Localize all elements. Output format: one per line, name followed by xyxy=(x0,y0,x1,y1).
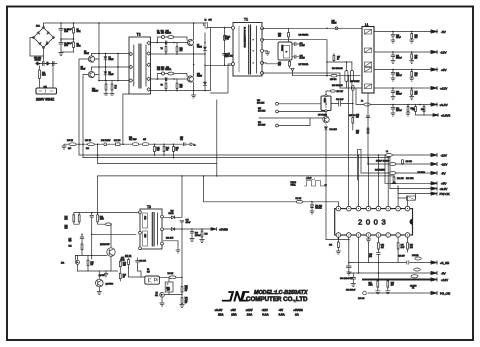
svg-text:4R7: 4R7 xyxy=(143,139,146,141)
svg-text:5D-9: 5D-9 xyxy=(42,75,46,77)
svg-text:R57 683: R57 683 xyxy=(349,115,355,117)
svg-text:-12V: -12V xyxy=(440,51,447,55)
wire L1 aux down xyxy=(367,93,369,164)
arrow -5V a xyxy=(431,163,437,166)
svg-text:817: 817 xyxy=(147,271,150,273)
svg-text:COMPUTER CO.,LTD: COMPUTER CO.,LTD xyxy=(246,296,308,303)
clamp box U8 xyxy=(278,42,292,60)
svg-text:C5027: C5027 xyxy=(84,53,89,55)
svg-text:Q6 8550S: Q6 8550S xyxy=(106,284,114,286)
svg-text:4R7: 4R7 xyxy=(278,35,281,37)
wire mid row xyxy=(64,143,190,145)
capacitor C42 + zener ZD1 xyxy=(310,202,314,214)
svg-text:PS_ON: PS_ON xyxy=(440,291,450,295)
svg-text:R36: R36 xyxy=(68,148,71,150)
svg-text:C42 471: C42 471 xyxy=(315,208,321,210)
svg-text:100: 100 xyxy=(356,133,359,135)
terminal xyxy=(291,69,294,72)
capacitor C10 xyxy=(165,41,167,44)
resistor R80 xyxy=(87,260,89,266)
svg-text:101B: 101B xyxy=(144,234,146,238)
capacitor C5 xyxy=(223,40,227,65)
resistor R43 xyxy=(173,144,175,146)
sense wire left xyxy=(278,103,321,105)
resistor R26 xyxy=(411,32,413,34)
node dots top rail xyxy=(61,22,194,24)
svg-text:-12V: -12V xyxy=(262,308,268,312)
svg-text:2003: 2003 xyxy=(358,218,389,227)
arrow -5V xyxy=(431,172,437,175)
svg-text:2R2 4K7 FR107A: 2R2 4K7 FR107A xyxy=(157,31,172,34)
svg-text:4R7 1/2W: 4R7 1/2W xyxy=(129,139,137,141)
wire Q collectors xyxy=(92,23,100,71)
svg-text:+5VSB: +5VSB xyxy=(293,308,303,312)
svg-text:R37 1M: R37 1M xyxy=(85,140,92,142)
svg-text:C5027: C5027 xyxy=(81,69,86,71)
resistor R63 xyxy=(407,237,409,243)
svg-text:431: 431 xyxy=(155,295,158,297)
resistor R57 xyxy=(352,104,354,118)
diode D2 xyxy=(105,54,107,57)
capacitor C39 xyxy=(351,273,356,287)
svg-text:-5V: -5V xyxy=(441,272,446,276)
capacitor C2 xyxy=(59,39,63,49)
svg-text:C5: C5 xyxy=(176,150,178,152)
svg-text:472: 472 xyxy=(180,139,183,141)
wire row 255 xyxy=(76,255,107,260)
collector bus xyxy=(193,23,195,95)
svg-text:1000uF R34 120: 1000uF R34 120 xyxy=(376,161,389,163)
wire -12V row xyxy=(392,154,431,156)
svg-text:-5V: -5V xyxy=(441,172,446,176)
svg-text:0.5A: 0.5A xyxy=(279,313,286,317)
svg-text:R67 100K: R67 100K xyxy=(406,178,414,180)
wire mid tie xyxy=(61,34,74,43)
resistor R31 xyxy=(415,105,417,107)
row -5V b xyxy=(349,272,431,274)
svg-text:1000uF: 1000uF xyxy=(396,93,402,95)
JNC logo xyxy=(222,291,250,301)
row +5V thick xyxy=(363,279,431,281)
wire row 271 xyxy=(78,270,118,272)
resistor R18 xyxy=(224,28,226,36)
wire cell B top xyxy=(157,74,187,80)
svg-text:-12V: -12V xyxy=(441,154,447,158)
svg-text:270: 270 xyxy=(415,93,418,95)
svg-text:1n: 1n xyxy=(337,59,339,61)
wire feedback bus xyxy=(259,118,323,126)
node B+ xyxy=(190,143,192,145)
wire sec top xyxy=(262,27,362,29)
resistor R30 xyxy=(407,105,409,107)
svg-text:D16 FR107A: D16 FR107A xyxy=(299,33,310,36)
svg-text:C30 47uF: C30 47uF xyxy=(336,99,343,101)
svg-text:100 OHM: 100 OHM xyxy=(258,110,266,112)
svg-text:+3.3V: +3.3V xyxy=(440,103,449,107)
box R73 xyxy=(407,196,416,200)
svg-text:D17 FR107A: D17 FR107A xyxy=(299,63,310,66)
ground row left xyxy=(62,144,66,149)
sense terminal A xyxy=(276,102,279,105)
wire right bus xyxy=(205,28,211,91)
svg-text:100: 100 xyxy=(415,75,418,77)
svg-text:EI-33ASANKEN750B: EI-33ASANKEN750B xyxy=(243,27,246,48)
svg-text:Z1: Z1 xyxy=(205,19,207,21)
svg-text:+3.3V: +3.3V xyxy=(215,308,223,312)
row -5V xyxy=(374,31,431,33)
svg-text:D27 5822: D27 5822 xyxy=(418,172,425,174)
capacitor C11 xyxy=(165,77,167,80)
resistor R28 xyxy=(411,70,413,72)
standby primary wires xyxy=(79,176,138,213)
svg-text:4/7W: 4/7W xyxy=(100,219,104,221)
svg-text:470uF: 470uF xyxy=(396,37,401,39)
svg-text:D14 4148: D14 4148 xyxy=(330,129,337,131)
svg-text:100 OHM: 100 OHM xyxy=(258,124,266,126)
wire AC top rail xyxy=(44,23,206,27)
wire right AC leg xyxy=(52,66,54,88)
svg-text:C26 103: C26 103 xyxy=(406,161,412,163)
wire cell A top xyxy=(157,37,187,43)
svg-text:FR107: FR107 xyxy=(109,59,114,61)
capacitor C30 xyxy=(331,101,353,106)
wire T2 bottom to rails xyxy=(123,94,129,144)
svg-text:2200uF: 2200uF xyxy=(396,110,402,112)
svg-text:+5V: +5V xyxy=(231,308,236,312)
svg-text:472 472: 472 472 xyxy=(35,60,41,62)
svg-text:L5 R100: L5 R100 xyxy=(412,255,418,257)
svg-text:D18 SBL3040: D18 SBL3040 xyxy=(332,68,343,70)
resistor R50 xyxy=(288,28,290,32)
svg-text:4K7: 4K7 xyxy=(180,50,183,52)
resistor R87 xyxy=(181,287,183,293)
svg-text:FR302: FR302 xyxy=(169,213,174,215)
ground center tap xyxy=(264,51,270,55)
capacitor C20 xyxy=(391,32,395,44)
capacitor C23 xyxy=(391,88,395,100)
resistor R51 xyxy=(262,62,278,65)
svg-text:FR107: FR107 xyxy=(197,75,202,77)
ground bus xyxy=(191,95,195,98)
svg-text:47uF: 47uF xyxy=(401,247,405,249)
diode D9 xyxy=(204,33,206,47)
capacitor C15 xyxy=(292,55,299,58)
resistor R32 xyxy=(423,105,425,107)
svg-text:FR302W: FR302W xyxy=(281,45,283,52)
svg-text:100 OHM: 100 OHM xyxy=(257,103,265,105)
diode D8 xyxy=(162,36,165,39)
diode D24 xyxy=(351,85,354,90)
wire fb xyxy=(293,62,361,208)
svg-text:+12V: +12V xyxy=(246,308,253,312)
svg-text:R66 10K: R66 10K xyxy=(397,178,404,180)
resistor R84 xyxy=(169,276,176,279)
resistor R64 xyxy=(377,280,379,281)
row +5V xyxy=(374,69,431,71)
diode D12 xyxy=(162,72,165,75)
bridge rectifier BD1 xyxy=(34,28,54,48)
row +12V xyxy=(374,87,431,89)
svg-text:1N 41: 1N 41 xyxy=(125,255,132,258)
long rails xyxy=(79,155,390,164)
wire cell B base xyxy=(151,78,188,80)
svg-text:PS223: PS223 xyxy=(323,98,325,103)
svg-text:1n 2kV: 1n 2kV xyxy=(300,45,306,47)
resistor R20 xyxy=(165,79,167,83)
svg-text:0.8A: 0.8A xyxy=(262,313,269,317)
resistor R88 xyxy=(181,298,183,304)
wire base feeds xyxy=(79,59,88,158)
svg-text:103: 103 xyxy=(356,117,359,119)
wire cell B bottom xyxy=(151,90,206,92)
resistor R19 xyxy=(168,72,174,75)
caps under IC xyxy=(349,237,379,279)
capacitor C36 xyxy=(190,229,194,242)
wire sec mids xyxy=(262,40,362,88)
resistor R61 xyxy=(296,200,302,203)
svg-text:100u: 100u xyxy=(166,287,170,289)
svg-text:FR107: FR107 xyxy=(109,74,114,76)
svg-text:C18 10V: C18 10V xyxy=(398,256,405,258)
svg-text:R38: R38 xyxy=(86,148,89,150)
arrow -12V xyxy=(431,154,437,157)
resistor R27 xyxy=(411,52,413,54)
svg-text:R58 4K7: R58 4K7 xyxy=(337,91,344,93)
svg-text:C39 1000uF: C39 1000uF xyxy=(346,290,355,292)
svg-text:PW-OK: PW-OK xyxy=(440,192,450,196)
T3 bottom right wire xyxy=(163,241,180,253)
sense terminal C xyxy=(276,124,279,127)
diode D3 xyxy=(105,67,107,71)
ground xyxy=(59,49,63,56)
resistor R55 xyxy=(331,74,337,77)
svg-text:3.4mS: 3.4mS xyxy=(307,177,313,179)
transistor Q1 xyxy=(88,56,94,62)
svg-text:L1: L1 xyxy=(365,22,369,26)
svg-text:B+: B+ xyxy=(194,145,196,147)
capacitor C26 xyxy=(402,160,404,164)
svg-text:C49 330: C49 330 xyxy=(358,298,364,300)
resistor R70 xyxy=(201,229,203,231)
svg-text:100: 100 xyxy=(415,37,418,39)
ratings table row1 xyxy=(215,308,304,316)
arrow +12V xyxy=(431,86,437,89)
svg-text:104: 104 xyxy=(369,256,372,258)
capacitor C22 xyxy=(391,70,395,82)
svg-text:L2: L2 xyxy=(361,101,363,103)
resistor R1 xyxy=(73,23,75,28)
capacitor C48 xyxy=(165,282,173,292)
arrow +3.3V xyxy=(431,103,437,106)
wire T1 primary return xyxy=(205,64,232,66)
svg-text:PIN2 L: PIN2 L xyxy=(291,185,296,187)
svg-text:R61 1K: R61 1K xyxy=(296,198,303,200)
svg-text:D19 SBL2040: D19 SBL2040 xyxy=(332,85,343,87)
resistor R41 xyxy=(154,144,156,146)
arrow +5VSB mid xyxy=(211,228,217,231)
svg-text:+3.3VS: +3.3VS xyxy=(441,114,450,118)
resistor R65 xyxy=(387,280,389,281)
svg-text:100: 100 xyxy=(391,285,394,287)
wire -5V row b xyxy=(358,149,431,180)
svg-text:220: 220 xyxy=(415,57,418,59)
svg-text:2R2 4K7 FR107A: 2R2 4K7 FR107A xyxy=(157,68,172,71)
svg-text:C50 470: C50 470 xyxy=(140,261,146,263)
resistor R72 xyxy=(78,213,80,215)
resistor R58 xyxy=(330,90,335,92)
svg-text:R84 1K: R84 1K xyxy=(168,273,175,275)
svg-text:13A: 13A xyxy=(247,313,253,317)
svg-text:470uF: 470uF xyxy=(186,222,191,224)
transistor Q3 xyxy=(187,39,193,45)
svg-text:R56 560/2W: R56 560/2W xyxy=(350,81,360,83)
wire -5V row a xyxy=(368,163,431,165)
capacitor C46 xyxy=(397,237,399,243)
wire opto right xyxy=(159,276,182,278)
svg-text:4K7: 4K7 xyxy=(180,86,183,88)
svg-text:1n 2kV: 1n 2kV xyxy=(300,58,306,60)
wire mid vertical xyxy=(181,229,183,287)
cap C40 xyxy=(104,271,107,277)
capacitor C24 xyxy=(391,105,395,117)
resistor R29 xyxy=(411,88,413,90)
resistor R21 xyxy=(176,79,178,83)
svg-text:FR107: FR107 xyxy=(332,23,337,25)
svg-text:C4: C4 xyxy=(166,150,168,152)
svg-text:-12V: -12V xyxy=(441,163,447,167)
svg-text:+5V: +5V xyxy=(441,182,446,186)
resistor R74 xyxy=(97,213,99,215)
resistor R42 xyxy=(163,144,165,146)
resistor R75b xyxy=(106,223,112,226)
node dots mid row xyxy=(79,143,174,145)
wire H ties xyxy=(92,54,130,81)
TL431 U4 xyxy=(160,292,165,297)
svg-text:FR107: FR107 xyxy=(197,46,202,48)
svg-text:+12V: +12V xyxy=(441,278,448,282)
transistor Q6 xyxy=(96,279,104,287)
svg-text:107: 107 xyxy=(91,264,94,266)
svg-text:1K0: 1K0 xyxy=(410,247,413,249)
svg-text:R81: R81 xyxy=(69,246,72,248)
wire PG bottom pin xyxy=(325,112,327,116)
sense terminal B xyxy=(276,110,279,113)
row -12V xyxy=(374,51,431,53)
svg-text:R45 100/2W: R45 100/2W xyxy=(101,140,111,142)
resistor R77 xyxy=(128,258,130,260)
svg-text:D22 4148: D22 4148 xyxy=(166,237,173,239)
svg-text:222: 222 xyxy=(225,38,228,40)
capacitor C35 xyxy=(180,220,183,222)
arrow +5V xyxy=(431,68,437,71)
PG box U6 xyxy=(321,96,331,111)
svg-text:25A: 25A xyxy=(218,313,224,317)
row +3.3VS xyxy=(416,114,434,116)
svg-text:4K7: 4K7 xyxy=(157,150,160,152)
ground pin5 xyxy=(368,237,370,239)
resistor R16 xyxy=(176,43,178,47)
svg-text:T3: T3 xyxy=(147,205,151,209)
wire cell A bottom xyxy=(151,53,206,55)
wire base row xyxy=(92,233,136,235)
svg-text:+12V: +12V xyxy=(440,87,448,91)
svg-text:T1: T1 xyxy=(244,18,248,22)
resistor R66 xyxy=(393,176,395,177)
row +5VSB xyxy=(349,262,431,264)
svg-text:T2: T2 xyxy=(137,33,141,37)
wire bridge bottom xyxy=(30,38,44,57)
diode D14 xyxy=(324,123,327,130)
wire top xyxy=(262,27,289,29)
arrow -12V xyxy=(431,50,437,53)
svg-text:R70: R70 xyxy=(205,234,208,236)
svg-text:-5V: -5V xyxy=(279,308,284,312)
right column small parts xyxy=(119,261,121,266)
transistor Q2 xyxy=(88,71,94,77)
svg-text:1000uF: 1000uF xyxy=(195,235,201,237)
capacitor C38 xyxy=(347,263,352,276)
svg-text:R34 5R6/2W: R34 5R6/2W xyxy=(375,170,385,172)
diode D11 xyxy=(204,54,206,82)
wire pin feeds up xyxy=(338,155,407,206)
wire 431 cathode xyxy=(164,294,182,296)
svg-text:1000uF: 1000uF xyxy=(396,57,402,59)
resistor R71 xyxy=(73,213,75,215)
svg-text:R31: R31 xyxy=(412,109,415,111)
svg-text:680: 680 xyxy=(278,64,281,66)
thermistor TH1 xyxy=(39,70,41,79)
wire row to pin1 xyxy=(204,176,339,202)
svg-text:R55 560: R55 560 xyxy=(330,79,336,81)
svg-text:R46 103: R46 103 xyxy=(114,140,120,142)
svg-text:L4: L4 xyxy=(386,151,388,153)
svg-text:+5VSB: +5VSB xyxy=(219,227,228,231)
svg-text:+5_SB: +5_SB xyxy=(440,261,449,265)
svg-text:Q5 E13005F: Q5 E13005F xyxy=(100,244,110,246)
svg-text:ZD1: ZD1 xyxy=(61,263,64,265)
resistor R13 xyxy=(168,36,174,39)
svg-text:MODEL:LC-B250ATX: MODEL:LC-B250ATX xyxy=(254,290,308,296)
svg-text:10: 10 xyxy=(123,277,125,279)
capacitor C25 xyxy=(366,116,370,118)
resistor R2 xyxy=(73,39,75,42)
svg-text:C44: C44 xyxy=(329,245,332,247)
svg-text:R35 1M: R35 1M xyxy=(67,140,74,142)
capacitor C50 xyxy=(136,258,140,267)
svg-text:+3.3V: +3.3V xyxy=(440,187,448,191)
resistor R14 xyxy=(165,43,167,47)
capacitor C14 xyxy=(292,42,299,45)
svg-text:0R1/2W: 0R1/2W xyxy=(92,91,99,93)
capacitor C21 xyxy=(391,52,395,64)
svg-text:230V 50HZ: 230V 50HZ xyxy=(36,98,55,102)
svg-text:R32: R32 xyxy=(421,109,424,111)
svg-text:2200uF: 2200uF xyxy=(396,75,402,77)
svg-text:1n: 1n xyxy=(115,88,117,90)
IC U5 2003 xyxy=(335,209,413,235)
svg-text:+5V: +5V xyxy=(441,68,448,72)
resistor R62 + capacitor C45 xyxy=(377,237,379,243)
transistor Q4 xyxy=(187,76,193,82)
capacitor C1 xyxy=(59,23,63,34)
svg-text:25A: 25A xyxy=(231,313,237,317)
row PS-ON xyxy=(368,292,431,294)
left HV vertical xyxy=(90,213,94,259)
resistor R22 xyxy=(333,54,335,56)
wire cell A base xyxy=(151,42,188,44)
arrow -5V xyxy=(431,30,437,33)
